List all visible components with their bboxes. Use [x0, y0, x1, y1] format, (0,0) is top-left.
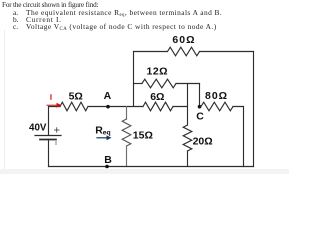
light gray strip along bottom edge	[0, 169, 289, 175]
wire: 15ohm branch lower lead	[126, 146, 128, 167]
wire: bottom return wire	[49, 166, 254, 168]
battery V1 short negative plate	[40, 139, 56, 141]
wire: battery negative lead down to bottom wire	[48, 140, 50, 167]
wire: 15ohm branch upper lead	[126, 107, 128, 120]
wire: outer right vertical	[253, 52, 255, 167]
node A dot	[106, 105, 110, 109]
resistor R7 20ohm	[183, 125, 192, 151]
svg-text:15Ω: 15Ω	[133, 129, 153, 141]
wire: 20ohm lower lead	[187, 151, 189, 167]
problem statement item a	[13, 9, 18, 16]
svg-text:6Ω: 6Ω	[150, 91, 164, 103]
wire: 6ohm output to junction vertical	[173, 106, 188, 108]
svg-text:60Ω: 60Ω	[172, 34, 195, 46]
svg-text:5Ω: 5Ω	[69, 90, 83, 102]
battery plus sign	[55, 128, 59, 132]
svg-text:12Ω: 12Ω	[147, 66, 169, 78]
wire: main wire from 5ohm to 6ohm through node A	[88, 106, 143, 108]
battery V1 long positive plate	[35, 135, 61, 137]
resistor R6 15ohm	[122, 119, 131, 146]
battery minus mark	[55, 142, 57, 145]
resistor R4 12ohm	[142, 79, 176, 88]
wire: battery positive lead up to top-left corner of main wire	[49, 107, 61, 136]
problem statement item c	[13, 23, 18, 30]
faint page border line left	[4, 30, 5, 174]
resistor R5 80ohm	[201, 102, 233, 111]
node B dot	[105, 165, 109, 169]
problem statement line 1	[2, 2, 98, 9]
resistor R2 6ohm	[143, 102, 173, 111]
current arrow I (red)	[47, 103, 62, 108]
wire: 12ohm branch left segment	[134, 83, 143, 85]
svg-text:I: I	[50, 93, 53, 102]
node C dot	[198, 105, 202, 109]
svg-text:20Ω: 20Ω	[193, 135, 213, 147]
Req direction arrow (navy)	[97, 135, 112, 140]
svg-text:C: C	[196, 110, 204, 122]
svg-text:40V: 40V	[29, 123, 47, 134]
resistor R1 5ohm	[60, 102, 88, 111]
svg-text:80Ω: 80Ω	[205, 90, 228, 102]
svg-text:A: A	[104, 90, 112, 102]
wire: 80ohm output corner down to bottom wire	[233, 107, 244, 167]
wire: vertical drop from 12ohm wire to node C	[199, 84, 201, 107]
wire: top branch left segment	[134, 51, 168, 53]
wire: 12ohm branch right segment	[176, 83, 200, 85]
wire: left branch vertical from main wire up to top branch	[133, 52, 135, 107]
resistor R3 60ohm	[168, 47, 200, 56]
svg-text:B: B	[104, 154, 112, 166]
wire: junction vertical from 12ohm wire down through main wire to 20ohm	[187, 84, 189, 126]
svg-text:Req: Req	[95, 124, 111, 136]
problem statement item b	[13, 16, 19, 23]
wire: top branch right segment	[200, 51, 254, 53]
